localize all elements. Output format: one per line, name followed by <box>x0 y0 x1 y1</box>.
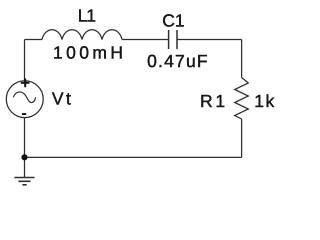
voltage source Vt circle <box>6 81 43 118</box>
voltage source plus sign <box>21 79 30 88</box>
resistor R1 <box>235 78 249 120</box>
ground <box>14 178 34 185</box>
inductor L1 <box>42 30 122 40</box>
wire bottom rail <box>25 156 242 158</box>
svg-text:C1: C1 <box>162 10 184 30</box>
wire right vertical top <box>241 40 243 78</box>
svg-text:L1: L1 <box>78 6 95 26</box>
capacitor C1 <box>169 30 177 49</box>
svg-text:0.47uF: 0.47uF <box>147 51 209 71</box>
svg-text:R1: R1 <box>200 91 228 111</box>
wire left vertical bottom <box>24 118 26 178</box>
svg-text:100mH: 100mH <box>53 43 126 63</box>
junction dot node at bottom rail <box>21 154 27 160</box>
wire right vertical bottom <box>241 119 243 157</box>
wire left vertical top <box>24 40 26 81</box>
wire inductor to capacitor <box>122 39 169 41</box>
svg-text:Vt: Vt <box>52 89 73 109</box>
voltage source minus sign <box>22 113 26 115</box>
wire top-left horizontal <box>25 39 43 41</box>
voltage source Vt sine wave <box>13 92 35 103</box>
wire capacitor to right corner <box>177 39 242 41</box>
svg-text:1k: 1k <box>254 91 275 111</box>
